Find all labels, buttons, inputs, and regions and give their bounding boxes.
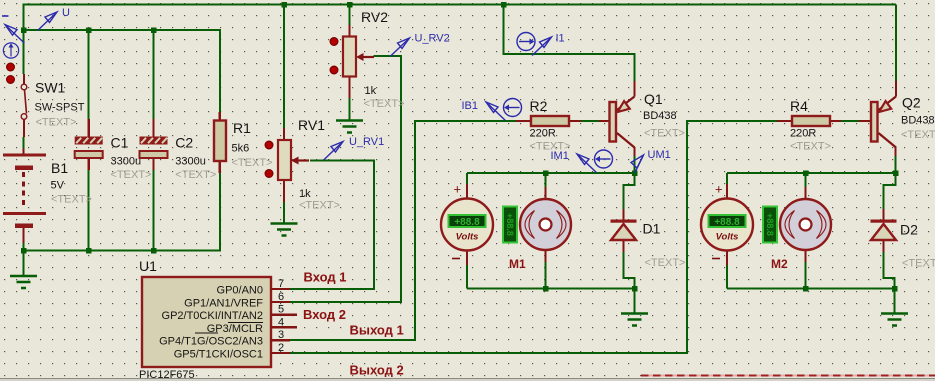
svg-text:3300u: 3300u bbox=[175, 156, 206, 168]
wire: C1 leads bbox=[88, 30, 90, 119]
junction Q1 collector node bbox=[632, 170, 638, 176]
capacitor C1 bbox=[75, 137, 103, 159]
svg-text:<TEXT>: <TEXT> bbox=[36, 117, 77, 129]
ground: RV1 bbox=[271, 224, 298, 236]
svg-text:U1: U1 bbox=[139, 258, 157, 274]
wire: ground drop D2 bbox=[894, 289, 896, 314]
svg-text:+: + bbox=[454, 182, 462, 197]
wire: D1 jog bottom bbox=[624, 252, 635, 289]
junction C2 top bbox=[151, 28, 157, 34]
pin stub: voltmeter2 bbox=[726, 184, 728, 199]
junction Q2 collector node bbox=[893, 170, 899, 176]
svg-text:GP1/AN1/VREF: GP1/AN1/VREF bbox=[184, 298, 263, 310]
wire: top power rail bbox=[24, 5, 897, 31]
current probe battery bbox=[3, 43, 18, 58]
wire: battery column bbox=[23, 30, 25, 74]
wire: voltmeter2 leads bbox=[726, 173, 728, 184]
transistor Q2 bbox=[871, 97, 896, 148]
motor M1 bbox=[520, 199, 571, 250]
svg-text:BD438: BD438 bbox=[901, 115, 935, 127]
potentiometer RV1 bbox=[265, 140, 309, 180]
resistor R4 bbox=[792, 116, 830, 126]
ground: D1 node bbox=[621, 314, 648, 326]
wire: C2 leads bbox=[153, 30, 155, 119]
wire: R4 to Q2 base bbox=[841, 120, 859, 122]
pin stub: motor1 bbox=[544, 187, 546, 200]
junction motor2 top bbox=[803, 170, 809, 176]
wire: RV2 wiper to GP1 pin6 bbox=[290, 56, 401, 302]
junction C1 top bbox=[86, 28, 92, 34]
potentiometer RV2 bbox=[330, 37, 374, 77]
pin stub: RV2 top/bottom bbox=[348, 25, 350, 37]
svg-text:Вход 2: Вход 2 bbox=[303, 307, 346, 322]
pin stub: R1 bbox=[219, 112, 221, 121]
pin stub: Q1 emitter riser bbox=[633, 81, 635, 97]
wire: RV1 wiper to GP0 pin7 bbox=[290, 161, 374, 290]
voltage probe minus top-left bbox=[5, 25, 24, 43]
svg-text:3: 3 bbox=[278, 329, 284, 341]
wire: R2 to Q1 base bbox=[581, 120, 599, 122]
svg-text:<TEXT>: <TEXT> bbox=[645, 257, 686, 269]
capacitor C2 bbox=[140, 137, 168, 159]
pin stub: Q1 collector riser bbox=[633, 147, 635, 156]
voltmeter 1 bbox=[441, 199, 493, 251]
tachometer display M1 bbox=[503, 207, 517, 243]
wire: D2 jog top bbox=[884, 173, 896, 209]
svg-text:C2: C2 bbox=[175, 135, 193, 151]
wire: ground drop D1 bbox=[634, 289, 636, 314]
svg-text:U_RV2: U_RV2 bbox=[415, 33, 450, 45]
svg-text:B1: B1 bbox=[51, 160, 68, 176]
wire: Q1 collector drop bbox=[634, 156, 636, 173]
svg-text:BD438: BD438 bbox=[643, 110, 677, 122]
junction RV1 riser bbox=[281, 2, 287, 8]
svg-text:Вход 1: Вход 1 bbox=[304, 270, 347, 285]
svg-text:M1: M1 bbox=[509, 257, 526, 271]
svg-text:U_RV1: U_RV1 bbox=[349, 136, 384, 148]
diode D2 bbox=[871, 220, 897, 241]
svg-text:PIC12F675: PIC12F675 bbox=[139, 369, 195, 381]
pin stub: SW1 bottom to battery bbox=[23, 120, 25, 138]
resistor R1 bbox=[214, 121, 226, 162]
pin stub: C1 bbox=[87, 119, 89, 137]
svg-text:GP0/AN0: GP0/AN0 bbox=[217, 285, 263, 297]
diode D1 bbox=[611, 220, 637, 241]
pin stub: Q1 base bbox=[599, 120, 610, 122]
svg-text:3300u: 3300u bbox=[111, 156, 142, 168]
pin stub: voltmeter1 bbox=[466, 184, 468, 199]
wire: RV1 riser from top rail bbox=[283, 5, 285, 129]
pin stub: Q2 emitter riser bbox=[895, 81, 897, 97]
pin stub: R4 left/right bbox=[777, 120, 792, 122]
pin stub: SW1 top bbox=[23, 74, 25, 84]
svg-text:Q1: Q1 bbox=[644, 91, 663, 107]
wire: RV1 to ground bbox=[283, 202, 285, 224]
svg-text:<TEXT>: <TEXT> bbox=[232, 157, 273, 169]
svg-text:UM1: UM1 bbox=[648, 149, 671, 161]
wire: motor1 leads bbox=[545, 173, 547, 187]
junction C2 bottom bbox=[151, 248, 157, 254]
junction motor2 bottom bbox=[803, 286, 809, 292]
pin stub: motor2 bbox=[804, 187, 806, 200]
svg-text:5k6: 5k6 bbox=[232, 143, 250, 155]
svg-text:+: + bbox=[715, 182, 723, 197]
svg-text:RV1: RV1 bbox=[298, 117, 325, 133]
voltage probe UM1 bbox=[631, 155, 644, 173]
pin stub: battery top bbox=[22, 149, 24, 155]
wire: GP4 pin3 to base resistor R2 bbox=[290, 121, 516, 340]
svg-text:220R: 220R bbox=[790, 128, 816, 140]
svg-text:<TEXT>: <TEXT> bbox=[901, 129, 935, 141]
ground: RV2 bbox=[336, 121, 363, 133]
pin stub: Q2 base bbox=[859, 120, 871, 122]
junction motor1 top bbox=[543, 170, 549, 176]
ground: battery bbox=[10, 276, 37, 288]
wire: battery ground drop bbox=[23, 251, 25, 277]
junction motor1 bottom bbox=[543, 286, 549, 292]
svg-text:R4: R4 bbox=[790, 98, 808, 114]
svg-text:5: 5 bbox=[278, 304, 284, 316]
wire: Q1 emitter feed from rail bbox=[504, 5, 635, 82]
svg-text:M2: M2 bbox=[771, 257, 788, 271]
wire: second rail to C1 C2 R1 bbox=[24, 30, 220, 112]
svg-text:I1: I1 bbox=[556, 33, 565, 45]
svg-text:6: 6 bbox=[278, 291, 284, 303]
svg-text:GP2/T0CKI/INT/AN2: GP2/T0CKI/INT/AN2 bbox=[162, 310, 263, 322]
wire: voltmeter1 leads bbox=[466, 173, 468, 184]
svg-text:<TEXT>: <TEXT> bbox=[790, 141, 831, 153]
pin stub: battery bottom bbox=[22, 228, 24, 243]
wire: motor2 bottom rail bbox=[727, 288, 895, 290]
svg-text:D1: D1 bbox=[643, 221, 661, 237]
motor M2 bbox=[780, 199, 831, 250]
svg-text:<TEXT>: <TEXT> bbox=[111, 169, 152, 181]
resistor R2 bbox=[531, 116, 569, 126]
svg-text:2: 2 bbox=[278, 342, 284, 354]
switch SW1 bbox=[7, 63, 27, 119]
voltmeter 2 bbox=[701, 199, 753, 251]
pin stub: RV1 top/bottom bbox=[283, 128, 285, 140]
svg-text:R1: R1 bbox=[233, 120, 251, 136]
wire: motor2 leads bbox=[805, 173, 807, 187]
ground: D2 node bbox=[881, 314, 908, 326]
annotation dashed line bottom right bbox=[641, 375, 935, 377]
wire: Q2 emitter feed from rail bbox=[895, 5, 897, 82]
svg-text:RV2: RV2 bbox=[361, 9, 388, 25]
junction C1 bottom bbox=[86, 248, 92, 254]
junction Q1 feed bbox=[501, 2, 507, 8]
voltage probe U_RV2 bbox=[390, 38, 409, 57]
voltage probe U bbox=[38, 12, 57, 31]
svg-text:C1: C1 bbox=[111, 135, 129, 151]
svg-text:<TEXT>: <TEXT> bbox=[51, 194, 92, 206]
pin stub: Q2 collector riser bbox=[894, 147, 896, 156]
wire: D2 jog bottom bbox=[884, 252, 895, 289]
svg-text:R2: R2 bbox=[530, 98, 548, 114]
svg-text:IB1: IB1 bbox=[462, 100, 479, 112]
tachometer display M2 bbox=[763, 207, 777, 243]
voltage probe U_RV1 bbox=[324, 142, 343, 161]
svg-text:Q2: Q2 bbox=[902, 95, 921, 111]
pin stub: R2 left/right bbox=[516, 120, 531, 122]
voltmeter 2 minus bbox=[712, 258, 720, 260]
svg-text:<TEXT>: <TEXT> bbox=[299, 200, 340, 212]
wire: motor1 top rail bbox=[467, 172, 635, 174]
pin stub: C2 bbox=[152, 119, 154, 137]
svg-text:Выход 1: Выход 1 bbox=[350, 323, 404, 338]
microcontroller U1 PIC12F675 bbox=[142, 277, 297, 367]
svg-text:SW-SPST: SW-SPST bbox=[35, 102, 85, 114]
junction battery ground bbox=[21, 248, 27, 254]
svg-text:<TEXT>: <TEXT> bbox=[902, 258, 935, 270]
svg-text:GP5/T1CKI/OSC1: GP5/T1CKI/OSC1 bbox=[174, 349, 263, 361]
svg-text:1k: 1k bbox=[299, 188, 311, 200]
svg-text:GP4/T1G/OSC2/AN3: GP4/T1G/OSC2/AN3 bbox=[159, 336, 263, 348]
battery B1 bbox=[3, 155, 46, 228]
wire: motor1 bottom rail bbox=[467, 288, 635, 290]
wire: RV2 to ground bbox=[349, 98, 351, 121]
window bottom edge bbox=[0, 379, 935, 381]
svg-text:220R: 220R bbox=[530, 128, 556, 140]
junction RV2 riser bbox=[347, 2, 353, 8]
svg-text:SW1: SW1 bbox=[35, 80, 66, 96]
wire: GP5 pin2 to base resistor R4 bbox=[290, 121, 777, 353]
svg-text:<TEXT>: <TEXT> bbox=[364, 98, 405, 110]
pin stub: D1 bbox=[622, 209, 624, 221]
wire: D1 jog top bbox=[624, 173, 635, 209]
svg-text:D2: D2 bbox=[900, 222, 918, 238]
svg-text:4: 4 bbox=[278, 316, 284, 328]
svg-text:<TEXT>: <TEXT> bbox=[644, 128, 685, 140]
pin stub: D2 bbox=[882, 209, 884, 221]
current probe I1 bbox=[517, 33, 535, 51]
wire: Q2 collector drop bbox=[895, 156, 897, 173]
wire: RV2 riser from top rail bbox=[349, 5, 351, 26]
svg-text:<TEXT>: <TEXT> bbox=[175, 169, 216, 181]
junction D2 ground node bbox=[892, 286, 898, 292]
junction D1 ground node bbox=[632, 286, 638, 292]
svg-text:7: 7 bbox=[278, 278, 284, 290]
svg-text:Выход 2: Выход 2 bbox=[350, 363, 404, 378]
junction battery top node bbox=[21, 28, 27, 34]
svg-text:U: U bbox=[62, 7, 70, 19]
wire: ground rail bottom left bbox=[24, 173, 220, 251]
transistor Q1 bbox=[610, 97, 635, 148]
svg-text:5V: 5V bbox=[51, 180, 65, 192]
svg-text:IM1: IM1 bbox=[551, 150, 569, 162]
voltmeter 1 minus bbox=[452, 258, 460, 260]
wire: motor2 top rail bbox=[727, 172, 896, 174]
svg-text:1k: 1k bbox=[365, 85, 377, 97]
